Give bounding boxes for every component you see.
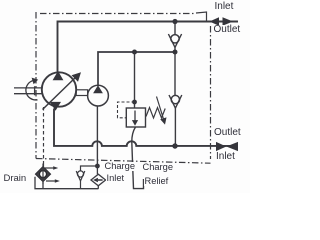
charge relief valve V1 body: [126, 108, 145, 127]
relief valve feeder line: [134, 52, 136, 108]
shaft rotation arrow: [26, 80, 38, 100]
wire: relief valve drain to charge relief port: [132, 127, 144, 189]
wire: top loop line from pump top port to inlet/outlet port: [58, 22, 239, 73]
rotation arrow head: [32, 78, 39, 85]
main pump P1 circle (variable displacement): [42, 72, 76, 106]
check valve CV2 lower (to bottom loop): [169, 52, 182, 146]
wire: charge pump suction line down to charge inlet: [96, 106, 98, 166]
wire: charge supply line from charge pump to check valves: [98, 52, 175, 85]
junction node: charge line / relief feeder: [132, 50, 137, 55]
label: Charge Inlet: [104, 162, 137, 171]
charge inlet strainer diamond: [91, 174, 106, 186]
relief valve spring: [146, 108, 165, 119]
spring adjustment arrow head: [160, 117, 166, 124]
drain coupling arrows: [53, 166, 58, 170]
main pump variable displacement arrow: [43, 72, 82, 109]
main pump lower flow triangle: [50, 102, 61, 111]
main pump upper flow triangle: [53, 71, 64, 80]
bottom port bowtie arrow (outlet/inlet): [216, 142, 226, 151]
enclosure boundary top-right corner step: [196, 12, 207, 22]
drain diamond stem: [42, 182, 44, 189]
junction node: top loop / CV1: [172, 19, 177, 24]
label: Charge Relief: [142, 163, 175, 172]
junction node: charge line / check valves: [173, 50, 178, 55]
enclosure boundary bottom: [36, 159, 211, 164]
junction node: relief pilot tap: [132, 100, 137, 105]
enclosure boundary top: [40, 13, 196, 15]
charge inlet internal arrow: [93, 178, 103, 183]
charge pump flow triangle: [93, 85, 103, 93]
tank / drain manifold line: [35, 177, 98, 189]
relief valve adjustment arrow: [157, 97, 164, 121]
inter-pump shaft to charge pump: [76, 90, 87, 96]
bypass check valve at reservoir: [76, 166, 97, 189]
enclosure boundary left: [35, 12, 37, 159]
relief valve internal flow arrow: [134, 111, 136, 122]
charge pump P2 circle: [88, 85, 109, 106]
label: Inlet (bottom): [215, 152, 236, 161]
junction node: bottom loop / CV2: [172, 143, 177, 148]
check valve CV1 upper (to top loop): [168, 23, 181, 52]
top port double arrow (inlet/outlet): [210, 17, 220, 26]
relief valve pilot line (dashed): [118, 102, 135, 118]
label: Inlet (top): [214, 2, 235, 11]
label: Outlet (bottom): [213, 128, 242, 137]
relief internal arrow head: [132, 120, 138, 126]
wire: bottom loop line from pump bottom port with crossover hops: [54, 109, 238, 146]
label: Outlet (top): [213, 25, 242, 34]
drain diagnostic coupling (filled diamond with port): [35, 164, 55, 185]
main pump drive shaft: [14, 86, 42, 95]
label: Drain: [3, 174, 28, 183]
junction node: charge suction / bypass: [95, 164, 100, 169]
enclosure boundary right: [210, 26, 212, 159]
wire: case drain line (dashed): [43, 107, 45, 164]
